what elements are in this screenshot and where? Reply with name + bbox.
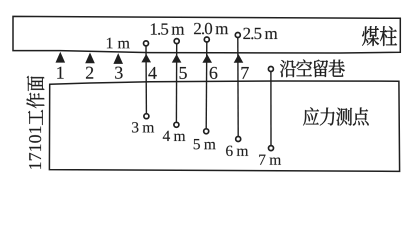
borehole line 7 (top 2.5 m / bottom 6 m) bbox=[237, 38, 239, 136]
depth label 1 m bbox=[107, 38, 113, 49]
depth label 1.5 m bbox=[151, 23, 157, 34]
station triangle 6 bbox=[202, 54, 212, 63]
station numbers 1-7 bbox=[57, 67, 248, 79]
label 应力测点 (stress measuring points) bbox=[303, 107, 369, 125]
top sensor circle on line 4 bbox=[144, 41, 149, 46]
station triangle 3 bbox=[113, 53, 123, 64]
depth label 3 m bbox=[132, 122, 138, 132]
depth label 2.5 m bbox=[243, 28, 250, 39]
coal pillar rectangle 煤柱 bbox=[13, 16, 400, 53]
station triangle 2 bbox=[85, 53, 95, 64]
station triangle 5 bbox=[172, 54, 182, 63]
top sensor circle on line 5 bbox=[174, 39, 179, 44]
depth label 2.0 m bbox=[194, 23, 201, 34]
borehole line 6 (top 2.0 m / bottom 5 m) bbox=[205, 42, 208, 128]
depth label 6 m bbox=[226, 146, 233, 156]
stress measuring zone rectangle 应力测点 bbox=[49, 81, 399, 171]
vertical label 17101工作面 (working face), rotated bbox=[26, 76, 44, 169]
depth label 4 m bbox=[163, 131, 170, 141]
top sensor circle on line 6 bbox=[204, 37, 209, 42]
label 煤柱 (coal pillar) bbox=[362, 26, 397, 46]
borehole line 7 m at entry bbox=[270, 72, 272, 145]
top sensor circle of 7 m borehole bbox=[268, 67, 273, 72]
station triangle 1 bbox=[56, 52, 66, 63]
label 沿空留巷 (gob-side entry retaining) bbox=[280, 59, 345, 77]
borehole line 4 (top 1 m / bottom 3 m) bbox=[145, 46, 147, 113]
station triangle 4 bbox=[141, 54, 151, 63]
bottom sensor circle on line 4 bbox=[144, 114, 149, 119]
borehole line 5 (top 1.5 m / bottom 4 m) bbox=[175, 44, 177, 122]
bottom sensor circle on line 7 bbox=[236, 137, 241, 142]
depth label 7 m bbox=[259, 155, 265, 165]
bottom sensor circle on line 6 bbox=[204, 129, 209, 134]
bottom sensor circle on line 5 bbox=[174, 122, 179, 127]
top sensor circle on line 7 bbox=[235, 33, 240, 38]
bottom sensor circle of 7 m borehole bbox=[269, 146, 274, 151]
depth label 5 m bbox=[194, 139, 200, 149]
station triangle 7 bbox=[234, 54, 244, 63]
